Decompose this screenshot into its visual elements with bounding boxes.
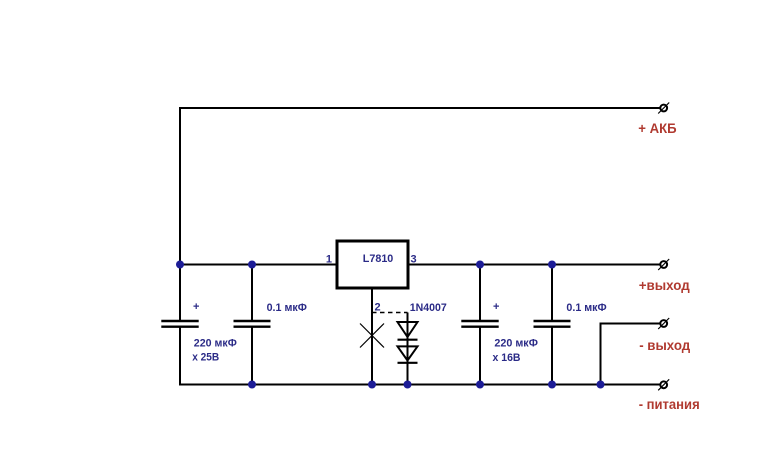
wire C2 vertical top [251,265,253,321]
junction node mid rail at C1 [176,261,184,269]
svg-text:+: + [493,301,499,313]
diode D1 1N4007 [398,322,418,337]
junction node ground at diodes [404,381,412,389]
wire -out vertical [600,323,602,385]
svg-text:+ АКБ: + АКБ [638,120,676,136]
crossed-out mark on pin2 wire [360,324,384,348]
junction node ground at pin2 [368,381,376,389]
svg-text:- выход: - выход [639,337,690,353]
junction node mid rail at C3 [476,261,484,269]
wire dashed link pin2 to diodes [372,312,408,314]
svg-text:0.1 мкФ: 0.1 мкФ [566,302,606,314]
junction node ground at C3 [476,381,484,389]
terminal +out [658,259,669,270]
wire C4 vertical top [551,265,553,321]
svg-text:х 25В: х 25В [192,352,219,364]
wire pin2 vertical to ground rail [371,289,373,385]
junction node ground at C4 [548,381,556,389]
capacitor C2 0.1uF plates [234,320,271,322]
junction node ground at -out branch [597,381,605,389]
capacitor C3 220uF x 16V plates [461,320,498,322]
regulator U1 L7810 body [337,241,408,288]
wire top rail from input node to +AKB terminal [179,107,661,109]
wire diode branch vertical [407,313,409,385]
svg-text:2: 2 [375,302,381,314]
svg-text:1N4007: 1N4007 [410,302,447,314]
diode D2 1N4007 [398,346,418,360]
wire mid rail left segment to pin1 [179,264,336,266]
wire left vertical drop (input) x=180 [179,107,181,320]
svg-text:220 мкФ: 220 мкФ [494,338,538,350]
wire -out horizontal to terminal [601,323,661,325]
wire left vertical below C1 [179,328,181,386]
wire C4 vertical bottom [551,328,553,385]
wire C2 vertical bottom [251,328,253,385]
svg-text:х 16В: х 16В [493,352,521,364]
junction node mid rail at C2 [248,261,256,269]
wire C3 vertical bottom [479,328,481,385]
svg-text:- питания: - питания [639,396,700,412]
svg-text:220 мкФ: 220 мкФ [194,338,237,350]
svg-text:L7810: L7810 [363,253,394,265]
wire C3 vertical top [479,265,481,321]
capacitor C1 220uF x 25V plates [161,320,198,322]
junction node mid rail at C4 [548,261,556,269]
terminal -out [658,318,669,329]
terminal +AKB [658,103,669,114]
svg-text:+выход: +выход [639,277,690,293]
svg-text:1: 1 [326,254,332,266]
svg-text:3: 3 [411,254,417,266]
capacitor C4 0.1uF plates [534,320,571,322]
svg-text:0.1 мкФ: 0.1 мкФ [267,302,307,314]
junction node ground at C2 [248,381,256,389]
terminal -supply [658,379,669,390]
svg-text:+: + [193,301,199,313]
wire bottom ground rail [179,384,661,386]
wire mid rail right segment pin3 to +out terminal [409,264,661,266]
